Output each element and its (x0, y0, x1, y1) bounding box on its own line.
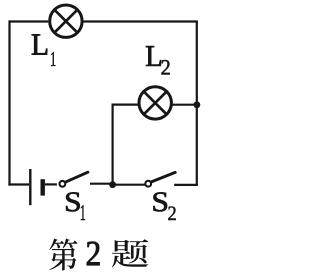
switch S2 lever blade (151, 172, 175, 182)
battery (cell) long positive plate (29, 169, 31, 205)
node B junction dot (right rail / L2) (194, 101, 201, 108)
wire: switch S1 fixed contact to junction node (90, 183, 113, 185)
wire: switch S2 fixed contact to bottom-right corner (174, 184, 198, 186)
label S2 letter S (154, 192, 168, 211)
label S2 subscript 2 (168, 206, 175, 220)
label L1 letter L (32, 34, 47, 54)
label L2 letter L (146, 46, 161, 66)
wire: right rail vertical (196, 22, 198, 186)
label L2 subscript 2 (161, 60, 169, 74)
battery (cell) short negative plate (41, 179, 45, 195)
wire: junction node to switch S2 (113, 184, 146, 186)
caption character 题 (112, 239, 149, 267)
wire: bottom-left segment into battery (8, 183, 29, 185)
label S1 letter S (66, 192, 80, 211)
wire: lamp L2 to right-rail junction node (171, 104, 196, 106)
lamp L1 (circle with cross) (50, 5, 82, 37)
lamp L2 (circle with cross) (139, 87, 171, 119)
wire: battery to switch S1 (45, 183, 57, 185)
wire: top segment from lamp L1 to right rail (84, 20, 198, 22)
wire: top-left segment from left rail to lamp L1 (10, 20, 49, 22)
wire: left rail vertical (8, 20, 10, 185)
wire: L2 branch (up from junction node and across to lamp L2) (113, 105, 140, 185)
node A junction dot (bottom, S1/S2/L2 branch) (109, 181, 116, 188)
switch S1 pivot circle (60, 181, 66, 187)
switch S2 pivot circle (145, 181, 151, 187)
caption character 第 (49, 239, 77, 271)
label S1 subscript 1 (81, 205, 85, 220)
switch S1 lever blade (66, 172, 88, 182)
caption numeral 2 (87, 242, 100, 265)
label L1 subscript 1 (51, 52, 55, 66)
